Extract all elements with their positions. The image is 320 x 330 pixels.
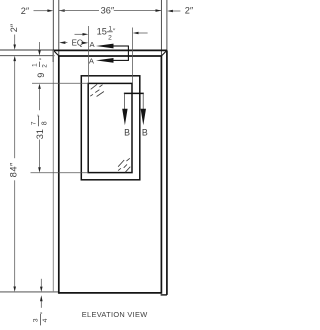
- svg-text:2: 2: [41, 64, 48, 68]
- svg-text:36″: 36″: [101, 6, 115, 16]
- dim 9half / 31seven8 shared up arrow at glass top: [38, 84, 41, 89]
- extension line glass-right-inner vertical up: [132, 28, 134, 84]
- section B left: vertical: [124, 93, 126, 109]
- dim 31seven8: down arrow at glass bottom: [38, 167, 41, 172]
- miter diagonal top-left corner: [54, 51, 59, 57]
- dim threequarter: down arrow: [40, 287, 43, 292]
- svg-text:2″: 2″: [9, 23, 19, 32]
- dim 2-inch vertical left: upper line: [14, 35, 16, 45]
- dim 2-inch left: leader line: [34, 10, 48, 12]
- dim 84-inch: line lower segment: [14, 180, 16, 286]
- svg-text:3: 3: [33, 318, 40, 322]
- svg-text:2″: 2″: [185, 5, 194, 15]
- door slab outer left edge upper dark segment: [52, 50, 54, 62]
- dim 84-inch: line upper segment: [14, 61, 16, 158]
- door slab outer right edge: [166, 50, 168, 295]
- opening jamb extension line left vertical above door: [58, 0, 60, 56]
- section A row2: arrow long triangle: [96, 58, 114, 63]
- dim 9half: down arrow at head: [39, 42, 41, 50]
- door slab inner top edge: [59, 55, 162, 57]
- dim 36-inch: line right: [114, 10, 162, 12]
- door slab inner left edge: [58, 56, 60, 294]
- section A row1: arrow long triangle: [96, 44, 114, 49]
- dim EQ: left tick: [65, 42, 67, 44]
- dim 36-inch: line left: [59, 10, 99, 12]
- dim 2-inch vertical left: down arrow: [13, 45, 16, 50]
- svg-text:15: 15: [97, 27, 107, 37]
- dim 2-inch left: arrow: [47, 9, 53, 12]
- dim threequarter: label rotated 3/4: [33, 311, 50, 325]
- dim 2-inch right: arrow: [167, 10, 173, 13]
- dim 31seven8: line lower segment: [39, 140, 41, 168]
- header track line upper left: [0, 49, 53, 51]
- door slab top edge: [53, 49, 167, 51]
- dim 31seven8: label rotated 31 7/8: [30, 114, 48, 139]
- dim 36-inch: arrow right: [156, 9, 162, 12]
- dim EQ: left arrow: [59, 41, 65, 44]
- dim 15half: right outside arrow tail: [139, 32, 148, 34]
- svg-text:7: 7: [30, 121, 37, 125]
- extension line glass top to left: [32, 82, 88, 84]
- svg-text:1: 1: [32, 63, 39, 67]
- dim 15half: left arrow pointing right: [83, 33, 89, 36]
- svg-text:8: 8: [42, 121, 49, 125]
- svg-text:31: 31: [35, 129, 45, 139]
- section B: top connector horizontal: [124, 92, 144, 94]
- dim 15half: left outside arrow tail: [75, 33, 84, 35]
- dim threequarter: lower tail: [40, 301, 42, 308]
- svg-text:84″: 84″: [8, 162, 19, 177]
- dim 84-inch: down arrow at floor: [13, 287, 16, 292]
- dim 2-inch vertical left / 84-inch shared up arrow: [13, 56, 16, 61]
- door slab bottom step right: [161, 294, 167, 296]
- floor line left: [0, 291, 59, 293]
- miter diagonal top-right corner: [161, 51, 166, 57]
- glazing inner frame: [88, 83, 132, 172]
- dim EQ: right tick: [81, 42, 83, 44]
- section B left: arrow: [122, 109, 127, 126]
- dim 84-inch: label rotated: [8, 162, 19, 177]
- door slab inner right edge: [160, 56, 162, 294]
- wall extension line far-right vertical above door: [166, 0, 168, 50]
- svg-text:ELEVATION VIEW: ELEVATION VIEW: [82, 310, 148, 319]
- dim threequarter: up arrow: [40, 295, 43, 301]
- svg-text:4: 4: [42, 318, 49, 322]
- glazing outer frame: [81, 76, 140, 180]
- extension line glass bottom to left: [31, 172, 89, 174]
- section A row2: tail: [114, 59, 129, 61]
- svg-text:2″: 2″: [21, 6, 30, 16]
- dim 36-inch: arrow left: [59, 9, 65, 12]
- section B right: arrow: [141, 109, 146, 126]
- extension line glass-left vertical up: [87, 26, 89, 83]
- dim 2-inch right: leader line: [173, 10, 181, 12]
- door slab outer left edge (light): [52, 50, 54, 292]
- dim 9half: label rotated 9 1/2: [32, 57, 49, 78]
- header track line lower left: [0, 55, 55, 57]
- section B right: vertical: [142, 93, 144, 109]
- svg-text:2: 2: [108, 34, 112, 41]
- dim threequarter: upper tail: [40, 279, 42, 287]
- svg-text:B: B: [124, 128, 130, 138]
- dim 31seven8: line upper segment: [39, 89, 41, 110]
- door slab bottom edge: [59, 292, 162, 294]
- dim EQ: right arrow: [82, 42, 88, 45]
- svg-text:B: B: [142, 128, 148, 138]
- section A connector vertical: [127, 46, 129, 61]
- svg-text:9: 9: [36, 73, 46, 78]
- glass hatch marks bottom-right: [118, 158, 130, 172]
- glass hatch marks top-left: [90, 84, 104, 96]
- dim 15half: right arrow pointing left: [133, 32, 139, 35]
- wall extension line far-left vertical above door: [52, 0, 54, 50]
- dim 2-inch vertical left: label rotated: [9, 23, 19, 32]
- opening jamb extension line right vertical above door: [160, 0, 162, 56]
- section A row1: tail: [114, 45, 129, 47]
